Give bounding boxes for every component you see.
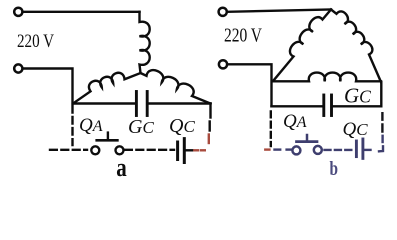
dash right of QC b (365, 149, 371, 151)
dashed horizontal a between switch and capacitor (125, 149, 174, 151)
black dashes top of right vertical b (381, 113, 383, 131)
wire bottom bus a left (73, 102, 135, 104)
svg-text:220 V: 220 V (224, 25, 262, 47)
pushbutton QA b: contact circles (292, 146, 300, 154)
dashed horizontal b between switch and capacitor (325, 149, 355, 151)
wire from T2b down left vertical b (228, 64, 272, 106)
dash left of circle b (287, 148, 291, 150)
terminal T2b (219, 60, 227, 68)
coil L2b (triangle right side winding) (331, 10, 381, 83)
capacitor GC a (135, 92, 138, 116)
pushbutton QA a: actuator tick (107, 133, 109, 140)
pushbutton QA b: bridge bar (297, 140, 318, 143)
coil L3a (star right winding) (141, 70, 211, 103)
pushbutton QA a: bridge bar (97, 139, 118, 142)
wire bus2 b right (333, 105, 381, 107)
terminal T1b (219, 8, 227, 16)
red dash bottom left corner b (265, 148, 269, 150)
blue dash on right vertical b (381, 136, 383, 142)
capacitor GC b (322, 95, 325, 116)
svg-text:a: a (116, 153, 127, 182)
dashed vertical left a (71, 117, 73, 145)
wire bus2 b left (272, 105, 323, 107)
svg-text:b: b (330, 158, 339, 180)
wire top b to apex (228, 10, 331, 12)
dashed vertical left b (270, 112, 272, 147)
pushbutton QA a: contact circles (91, 146, 99, 154)
corner dash bottom right b (379, 146, 383, 151)
svg-text:QC: QC (169, 115, 195, 137)
pushbutton QA b: actuator tick (306, 135, 309, 140)
capacitor QC b (355, 141, 358, 157)
dash before switch b (275, 148, 281, 150)
coil L1b (triangle left side winding) (274, 10, 332, 81)
wire top a (23, 11, 139, 13)
wire bottom bus a right (149, 102, 211, 104)
wire stub right of QC a (186, 149, 193, 151)
wire right vertical b solid (380, 82, 382, 106)
svg-text:GC: GC (344, 84, 371, 108)
terminal T2a (14, 64, 22, 72)
coil L1a (star top winding) (140, 12, 150, 73)
dashed horizontal a left of switch (50, 149, 87, 151)
coil L3b (triangle bottom winding) (274, 73, 382, 82)
terminal T1a (14, 8, 22, 16)
wire right vertical a solid (209, 104, 211, 118)
wire from T2a down to left vertex (23, 69, 72, 113)
red dashes bottom right corner a (194, 135, 209, 151)
coil L2a (star left winding) (73, 73, 141, 104)
svg-text:GC: GC (128, 116, 154, 138)
svg-text:QA: QA (283, 111, 307, 132)
svg-text:QC: QC (343, 119, 369, 140)
black dash on right vertical a (208, 122, 210, 131)
capacitor QC a (176, 142, 179, 160)
svg-text:220 V: 220 V (17, 32, 55, 52)
svg-text:QA: QA (79, 115, 103, 136)
